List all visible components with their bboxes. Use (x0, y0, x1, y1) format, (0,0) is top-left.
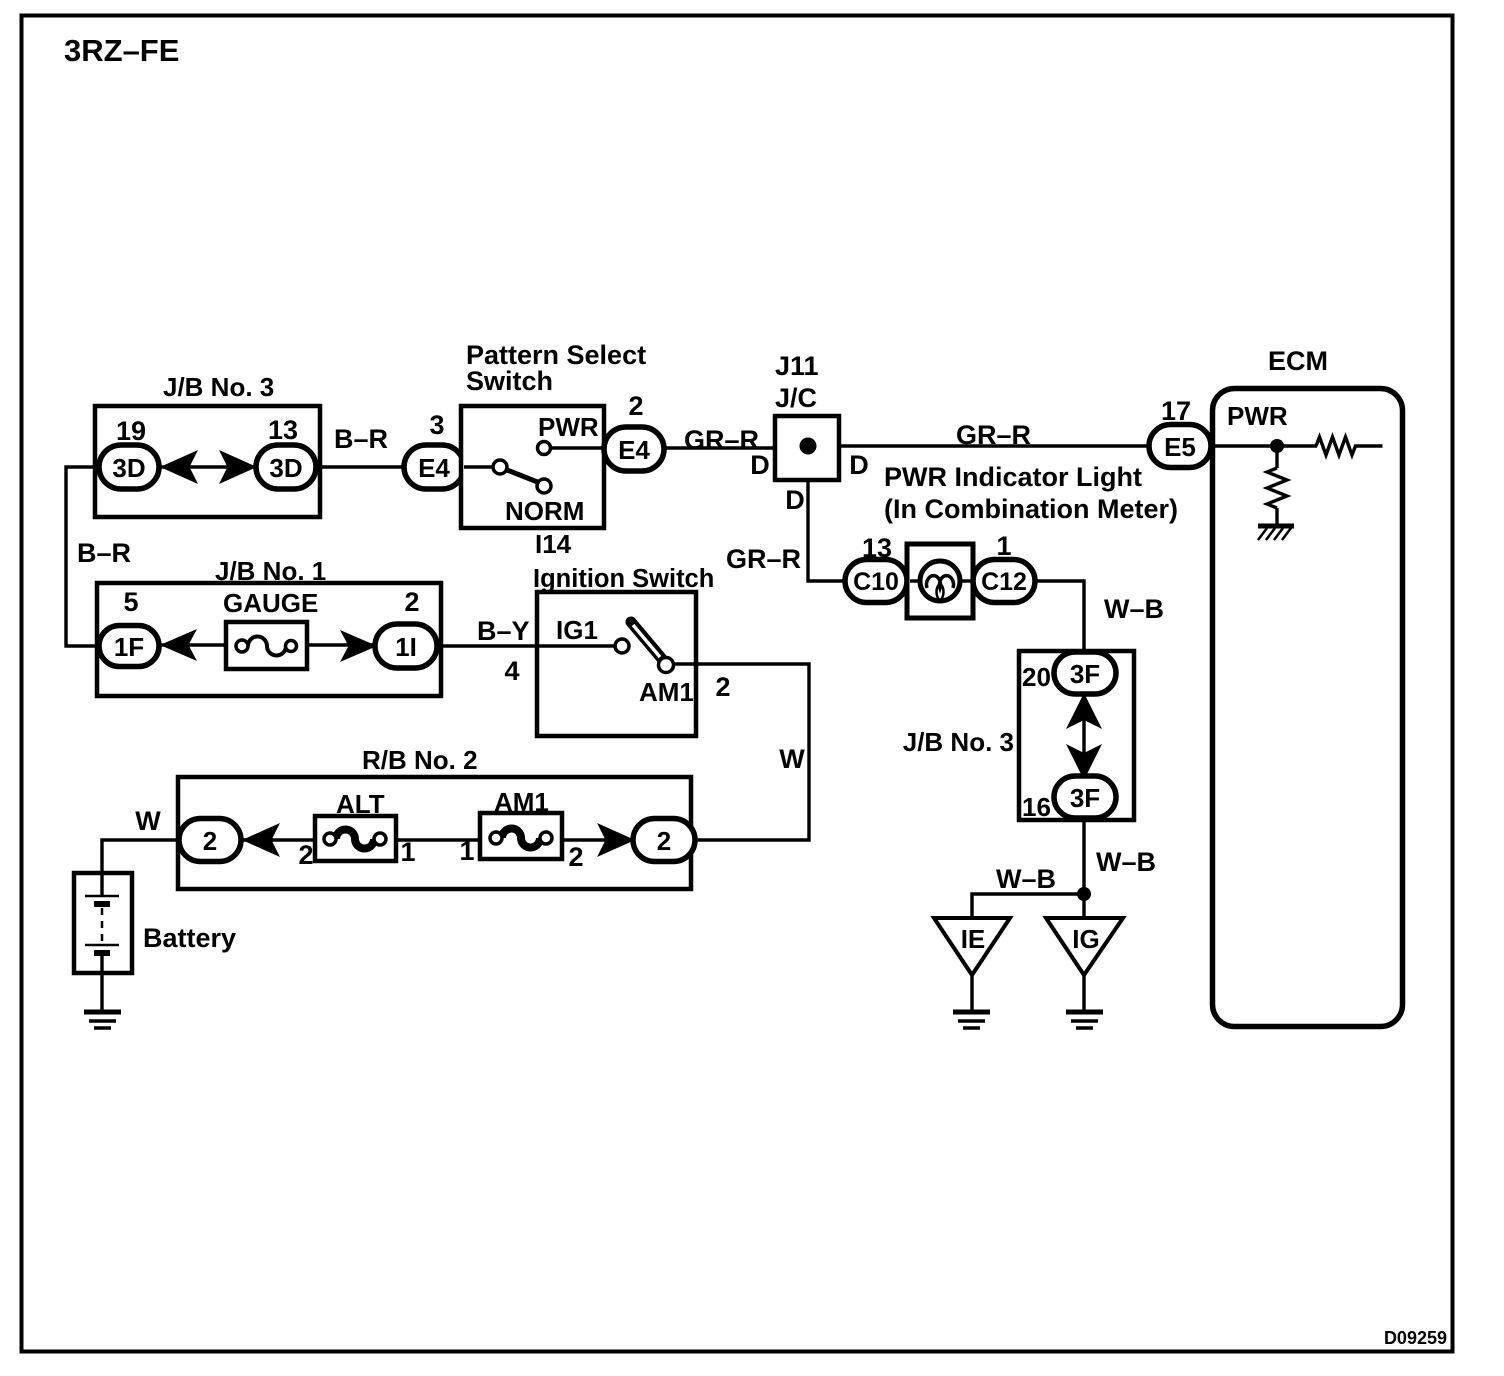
svg-text:2: 2 (715, 672, 730, 702)
pin 13 (268, 415, 298, 445)
wire to IG1 contact (537, 644, 617, 647)
label NORM (505, 496, 584, 526)
arrow right in J/B No.3 (219, 450, 257, 484)
wire GR-R J/C to E5 (839, 444, 1151, 447)
connector 3D pin 19 (99, 445, 159, 489)
label PWR Indicator Light (884, 462, 1178, 524)
node dot in J/C (800, 438, 817, 455)
junction block J/B No.3 upper box (95, 406, 320, 517)
svg-text:2: 2 (657, 826, 671, 856)
wire W from battery (102, 840, 182, 897)
switch contact PWR (538, 442, 551, 455)
label IG1 (556, 615, 598, 645)
arrow up (1066, 693, 1102, 729)
pin 2 (404, 587, 419, 617)
battery plate short thick bottom (94, 950, 110, 956)
svg-text:13: 13 (268, 415, 298, 445)
label PWR (538, 412, 599, 442)
label J11 J/C (775, 351, 819, 413)
svg-text:19: 19 (116, 416, 146, 446)
svg-text:GR–R: GR–R (956, 420, 1031, 450)
arrow right in R/B No.2 (597, 823, 635, 857)
svg-text:W: W (779, 744, 805, 774)
wire B-R (316, 465, 406, 468)
svg-text:GAUGE: GAUGE (223, 588, 318, 618)
wire W-B down from 3F (1082, 818, 1085, 918)
wire between 3D connectors (155, 465, 260, 468)
fuse ALT (315, 816, 396, 861)
wire B-Y to ignition switch (437, 644, 539, 647)
junction block J/B No.3 lower box (1019, 651, 1134, 820)
svg-text:Battery: Battery (143, 923, 236, 953)
battery plate short thick (94, 901, 110, 907)
svg-text:W–B: W–B (996, 864, 1056, 894)
pattern select switch box (461, 406, 604, 528)
svg-text:20: 20 (1022, 662, 1051, 692)
label GR-R (956, 420, 1031, 450)
connector 2 right (633, 819, 695, 862)
resistor R horizontal (1316, 437, 1383, 455)
ground symbol IE (953, 1012, 990, 1028)
svg-text:16: 16 (1022, 792, 1051, 822)
label AM1 (639, 677, 694, 707)
svg-text:IG: IG (1072, 924, 1099, 954)
wire node to vertical resistor (1275, 446, 1278, 468)
connector label I14 (535, 529, 572, 559)
svg-text:3F: 3F (1070, 659, 1100, 689)
battery plate long bottom (85, 944, 119, 947)
wire ALT fuse to AM1 fuse (392, 838, 484, 841)
connector 1F pin 5 (99, 626, 159, 667)
wire IG to ground (1082, 975, 1085, 1013)
svg-text:J/C: J/C (775, 383, 817, 413)
switch contact NORM (537, 479, 551, 493)
connector E4 pin 2 (604, 427, 664, 471)
pin 1 (ALT right) (400, 837, 415, 867)
switch common contact (493, 460, 507, 474)
svg-text:GR–R: GR–R (684, 425, 759, 455)
label W (135, 806, 161, 836)
arrow down (1066, 744, 1102, 780)
label J/B No. 3 (lower) (903, 727, 1014, 757)
arrow left in J/B No.3 (160, 450, 198, 484)
svg-text:5: 5 (123, 587, 138, 617)
ground connector IE (934, 918, 1010, 975)
label W (779, 744, 805, 774)
label W-B left (996, 864, 1056, 894)
junction connector J11 box (775, 416, 839, 480)
svg-text:2: 2 (298, 840, 313, 870)
pin 2 (628, 391, 643, 421)
ground connector IG (1046, 918, 1123, 975)
node dot (1270, 439, 1284, 453)
label J/B No. 3 (upper) (163, 372, 274, 402)
switch contact AM1 (659, 658, 674, 673)
ignition switch box (537, 592, 696, 736)
svg-text:IG1: IG1 (556, 615, 598, 645)
pin 20 (1022, 662, 1051, 692)
wire 2 to ALT fuse (238, 838, 320, 841)
connector 3D pin 13 (256, 445, 316, 489)
wire 1F to GAUGE fuse (155, 643, 230, 646)
pin 3 (429, 410, 444, 440)
svg-text:1: 1 (400, 837, 415, 867)
pin 2 (715, 672, 730, 702)
svg-text:J/B No. 3: J/B No. 3 (163, 372, 274, 402)
pin 4 (504, 656, 519, 686)
svg-text:R/B No. 2: R/B No. 2 (362, 745, 478, 775)
svg-text:B–R: B–R (77, 538, 131, 568)
label ALT (336, 789, 385, 819)
label ECM (1268, 346, 1328, 376)
wire battery to ground (100, 953, 103, 1013)
svg-text:B–Y: B–Y (477, 616, 530, 646)
svg-text:J/B No. 3: J/B No. 3 (903, 727, 1014, 757)
svg-text:3F: 3F (1070, 783, 1100, 813)
connector E4 pin 3 (404, 445, 464, 489)
svg-text:1I: 1I (395, 632, 417, 662)
ground symbol battery (84, 1012, 121, 1028)
svg-text:AM1: AM1 (639, 677, 694, 707)
connector label I14 (ignition switch) (536, 529, 543, 559)
svg-text:Switch: Switch (466, 366, 553, 396)
svg-text:GR–R: GR–R (726, 544, 801, 574)
connector 2 left (179, 819, 241, 862)
label B-R (334, 424, 388, 454)
pin 1 (AM1 left) (459, 836, 474, 866)
label W-B (1104, 594, 1164, 624)
relay block R/B No.2 box (178, 777, 691, 889)
part number D09259 (1384, 1328, 1447, 1348)
label D left (750, 450, 770, 480)
fuse GAUGE (226, 622, 307, 669)
connector 3F pin 20 (1054, 652, 1116, 694)
svg-text:3: 3 (429, 410, 444, 440)
label R/B No. 2 (362, 745, 478, 775)
wire GR-R down from J/C (808, 480, 847, 581)
fuse AM1 (480, 813, 562, 859)
svg-text:1: 1 (459, 836, 474, 866)
connector 3F pin 16 (1054, 776, 1116, 818)
ignition switch lever (631, 622, 663, 660)
label Battery (143, 923, 236, 953)
label GAUGE (223, 588, 318, 618)
svg-text:(In Combination Meter): (In Combination Meter) (884, 494, 1178, 524)
label GR-R (684, 425, 759, 455)
arrow left in J/B No.1 (160, 629, 197, 661)
label Ignition Switch (533, 565, 714, 593)
label D right (849, 450, 869, 480)
pin 2 (AM1 right) (568, 842, 583, 872)
svg-text:PWR: PWR (1227, 401, 1288, 431)
switch lever (502, 468, 545, 485)
svg-text:1F: 1F (114, 632, 144, 662)
svg-text:2: 2 (404, 587, 419, 617)
ground (ECM internal, hatched) (1258, 526, 1294, 540)
svg-text:E5: E5 (1164, 432, 1196, 462)
label J/B No. 1 (215, 556, 326, 586)
battery plate long top (85, 895, 119, 898)
wire W-B branch to IE (972, 894, 1084, 918)
wire AM1 fuse to 2 (558, 838, 636, 841)
svg-text:Ignition Switch: Ignition Switch (533, 565, 714, 593)
wire GAUGE fuse to 1I (303, 643, 380, 646)
junction node dot (1077, 887, 1091, 901)
arrow right in J/B No.1 (340, 630, 377, 662)
battery dashed center (101, 908, 104, 941)
wire from PWR contact (550, 446, 606, 449)
ECM box (1213, 389, 1403, 1027)
svg-text:D: D (750, 450, 770, 480)
wire W from AM1 down to R/B No.2 (674, 664, 809, 840)
wire IE to ground (970, 975, 973, 1013)
wire E4 to common contact (464, 465, 494, 468)
svg-text:ECM: ECM (1268, 346, 1328, 376)
battery box (74, 873, 132, 973)
svg-text:3RZ–FE: 3RZ–FE (64, 33, 179, 68)
pin 13 (862, 533, 892, 563)
svg-text:IE: IE (961, 924, 986, 954)
svg-text:W–B: W–B (1096, 847, 1156, 877)
svg-text:B–R: B–R (334, 424, 388, 454)
svg-text:D09259: D09259 (1384, 1328, 1447, 1348)
svg-text:NORM: NORM (505, 496, 584, 526)
connector C12 pin 1 (973, 560, 1035, 603)
label PWR inside ECM (1227, 401, 1288, 431)
svg-text:PWR: PWR (538, 412, 599, 442)
svg-text:3D: 3D (269, 453, 302, 483)
svg-text:2: 2 (203, 826, 217, 856)
PWR indicator bulb (in combination meter) (907, 544, 973, 618)
label B-R (vertical run) (77, 538, 131, 568)
wire inside ECM (1212, 444, 1317, 447)
wire W-B from C12 down to J/B No.3 (1035, 581, 1084, 652)
ground symbol IG (1066, 1012, 1103, 1028)
svg-text:D: D (785, 485, 805, 515)
connector E5 pin 17 (1149, 425, 1211, 468)
label B-Y (477, 616, 530, 646)
junction block J/B No.1 box (97, 583, 441, 696)
svg-text:2: 2 (628, 391, 643, 421)
svg-text:W: W (135, 806, 161, 836)
switch contact IG1 (615, 639, 629, 653)
label AM1 (494, 787, 549, 817)
title 3RZ-FE (64, 33, 179, 68)
svg-text:2: 2 (568, 842, 583, 872)
svg-text:C12: C12 (981, 568, 1027, 596)
svg-text:PWR Indicator Light: PWR Indicator Light (884, 462, 1142, 492)
svg-text:C10: C10 (853, 568, 899, 596)
svg-text:J11: J11 (775, 351, 819, 381)
svg-text:D: D (849, 450, 869, 480)
wire B-R left drop to J/B No.1 (66, 467, 101, 646)
label Pattern Select Switch (466, 340, 646, 396)
arrow left in R/B No.2 (242, 823, 280, 857)
svg-text:E4: E4 (418, 453, 450, 483)
resistor R vertical (1267, 468, 1287, 508)
shaft wire between arrows (1082, 712, 1085, 760)
connector C10 pin 13 (845, 560, 907, 603)
wire GR-R to J/C (664, 446, 777, 449)
pin 17 (1161, 396, 1191, 426)
pin 1 (996, 531, 1011, 561)
svg-text:3D: 3D (112, 453, 145, 483)
svg-text:4: 4 (504, 656, 519, 686)
pin 16 (1022, 792, 1051, 822)
pin 19 (116, 416, 146, 446)
svg-text:W–B: W–B (1104, 594, 1164, 624)
connector 1I pin 2 (375, 624, 437, 668)
wire resistor to ground (1275, 508, 1278, 526)
pin 2 (ALT left) (298, 840, 313, 870)
svg-text:1: 1 (996, 531, 1011, 561)
label D below (785, 485, 805, 515)
pin 5 (123, 587, 138, 617)
label W-B right (1096, 847, 1156, 877)
svg-text:17: 17 (1161, 396, 1191, 426)
svg-text:E4: E4 (618, 435, 650, 465)
label GR-R (726, 544, 801, 574)
